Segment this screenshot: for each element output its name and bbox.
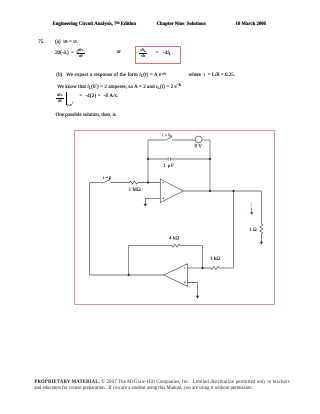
svg-text:t = 0: t = 0 (103, 175, 112, 180)
svg-text:t = 0: t = 0 (162, 133, 171, 138)
svg-text:4 kΩ: 4 kΩ (169, 236, 179, 242)
svg-text:1 Ω: 1 Ω (249, 227, 257, 233)
svg-text:i: i (250, 203, 252, 208)
svg-text:1 kΩ: 1 kΩ (210, 256, 220, 262)
svg-text:8 V: 8 V (195, 144, 203, 150)
svg-text:1 MΩ: 1 MΩ (129, 187, 141, 193)
svg-text:1 μF: 1 μF (163, 163, 174, 169)
